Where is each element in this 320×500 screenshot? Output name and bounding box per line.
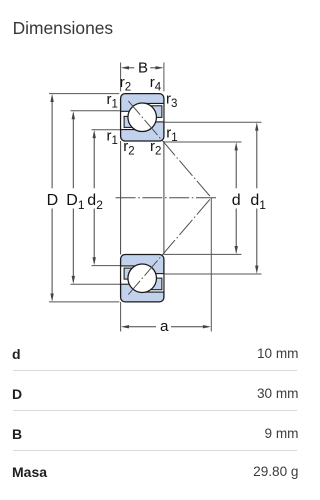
wire ext line d2 top (92, 129, 121, 131)
svg-text:r3: r3 (166, 91, 177, 111)
table row D (12, 386, 22, 402)
table row d (12, 346, 21, 362)
wire ext line d1 top (164, 121, 262, 123)
svg-text:B: B (138, 59, 148, 76)
wire contact angle line upper (128, 101, 211, 198)
svg-text:d1: d1 (250, 192, 266, 212)
svg-text:r1: r1 (166, 125, 177, 145)
wire left face line below bottom section (120, 302, 122, 332)
wire apex vertical (210, 198, 212, 332)
title (13, 18, 114, 39)
table row B (12, 426, 22, 442)
svg-text:r2: r2 (120, 74, 131, 94)
wire B extension right (163, 63, 165, 92)
svg-text:r1: r1 (107, 128, 118, 148)
wire left face line between sections (120, 141, 122, 255)
bearing bottom cross-section (mirrored) (120, 255, 164, 302)
bearing top cross-section (120, 94, 164, 141)
svg-text:d2: d2 (87, 192, 103, 212)
svg-text:D: D (47, 192, 59, 209)
dimension D1 (72, 118, 74, 277)
dimension d2 (93, 137, 95, 259)
svg-text:r4: r4 (150, 74, 162, 94)
wire ext line d1 bottom (164, 273, 262, 275)
dimension D (51, 101, 53, 295)
dimension B (129, 67, 156, 69)
wire ext line D1 bottom (71, 283, 121, 285)
svg-text:d: d (232, 192, 241, 209)
wire ext line d bottom (164, 253, 242, 255)
wire right face line between sections (163, 141, 165, 255)
table row Masa (12, 464, 47, 480)
wire ext line d2 bottom (92, 265, 121, 267)
wire contact angle line lower (128, 198, 211, 295)
wire ext line D1 top (71, 110, 121, 112)
svg-text:D1: D1 (66, 192, 85, 212)
wire ext line D top (49, 93, 119, 95)
dimension d1 (256, 129, 258, 266)
svg-text:a: a (160, 318, 169, 335)
node centerline (axis) (116, 197, 217, 199)
wire ext line D bottom (49, 301, 119, 303)
wire ext line d top (164, 141, 242, 143)
dimension d (235, 149, 237, 247)
wire B extension left (120, 63, 122, 92)
dimension a (129, 326, 203, 328)
